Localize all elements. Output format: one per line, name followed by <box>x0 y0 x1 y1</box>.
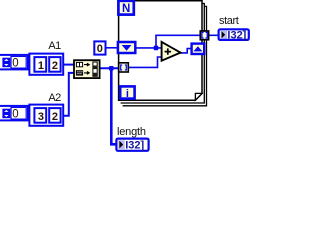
svg-text:3: 3 <box>38 111 44 123</box>
0 constant <box>94 41 105 54</box>
svg-text:I32]: I32] <box>227 29 246 41</box>
for loop frame sheet 2 (middle) <box>121 4 205 104</box>
wire branch down to length terminal <box>111 68 116 144</box>
indexing tunnel (array in) <box>119 63 129 72</box>
array A2 index display <box>0 106 28 121</box>
svg-text:length: length <box>117 126 146 138</box>
svg-text:i: i <box>126 88 129 100</box>
array A1 element 1 <box>34 57 46 72</box>
svg-text:A1: A1 <box>48 40 61 52</box>
left shift register <box>118 42 135 53</box>
wire left shift register to adder top input <box>136 47 162 49</box>
add function <box>162 42 181 61</box>
junction node on shift register wire <box>154 46 159 51</box>
wire A2 output to build array <box>64 73 75 116</box>
svg-text:start: start <box>219 15 239 27</box>
array A2 elements frame <box>29 105 63 126</box>
svg-text:2: 2 <box>52 111 58 123</box>
svg-text:N: N <box>122 3 130 15</box>
start indicator terminal I32 <box>219 29 249 41</box>
for loop N frame sheet 3 (back) <box>123 6 207 105</box>
array A1 index display <box>0 55 28 70</box>
svg-text:1: 1 <box>38 60 44 72</box>
array A2 element 2 <box>49 108 60 123</box>
folded page corner flap <box>195 93 202 100</box>
wire build array output to tunnel <box>100 67 120 69</box>
right shift register <box>192 44 205 54</box>
length indicator terminal I32 <box>116 139 148 152</box>
svg-text:0: 0 <box>97 43 103 55</box>
output tunnel (auto-indexed start) <box>200 31 208 40</box>
svg-text:I32]: I32] <box>125 139 144 151</box>
junction node on array wire <box>109 66 114 71</box>
for loop frame sheet 1 (front, with folded corner) <box>119 1 202 101</box>
svg-text:2: 2 <box>52 60 58 72</box>
for loop iteration terminal i <box>120 86 134 100</box>
for loop count terminal N <box>118 1 133 15</box>
array A1 elements frame <box>29 54 63 75</box>
wire 0 constant to left shift register <box>106 47 118 49</box>
wire branch up to output tunnel <box>156 35 201 48</box>
build array node <box>74 60 100 78</box>
array A1 element 2 <box>49 57 60 72</box>
wire A1 output to build array <box>64 64 75 66</box>
wire output tunnel to start indicator <box>208 34 218 36</box>
svg-text:A2: A2 <box>48 92 61 104</box>
svg-text:0: 0 <box>12 109 18 121</box>
wire adder output to right shift register <box>180 49 191 53</box>
wire indexing tunnel to adder bottom input <box>128 57 162 67</box>
svg-text:0: 0 <box>12 58 18 70</box>
array A2 element 3 <box>34 108 46 123</box>
